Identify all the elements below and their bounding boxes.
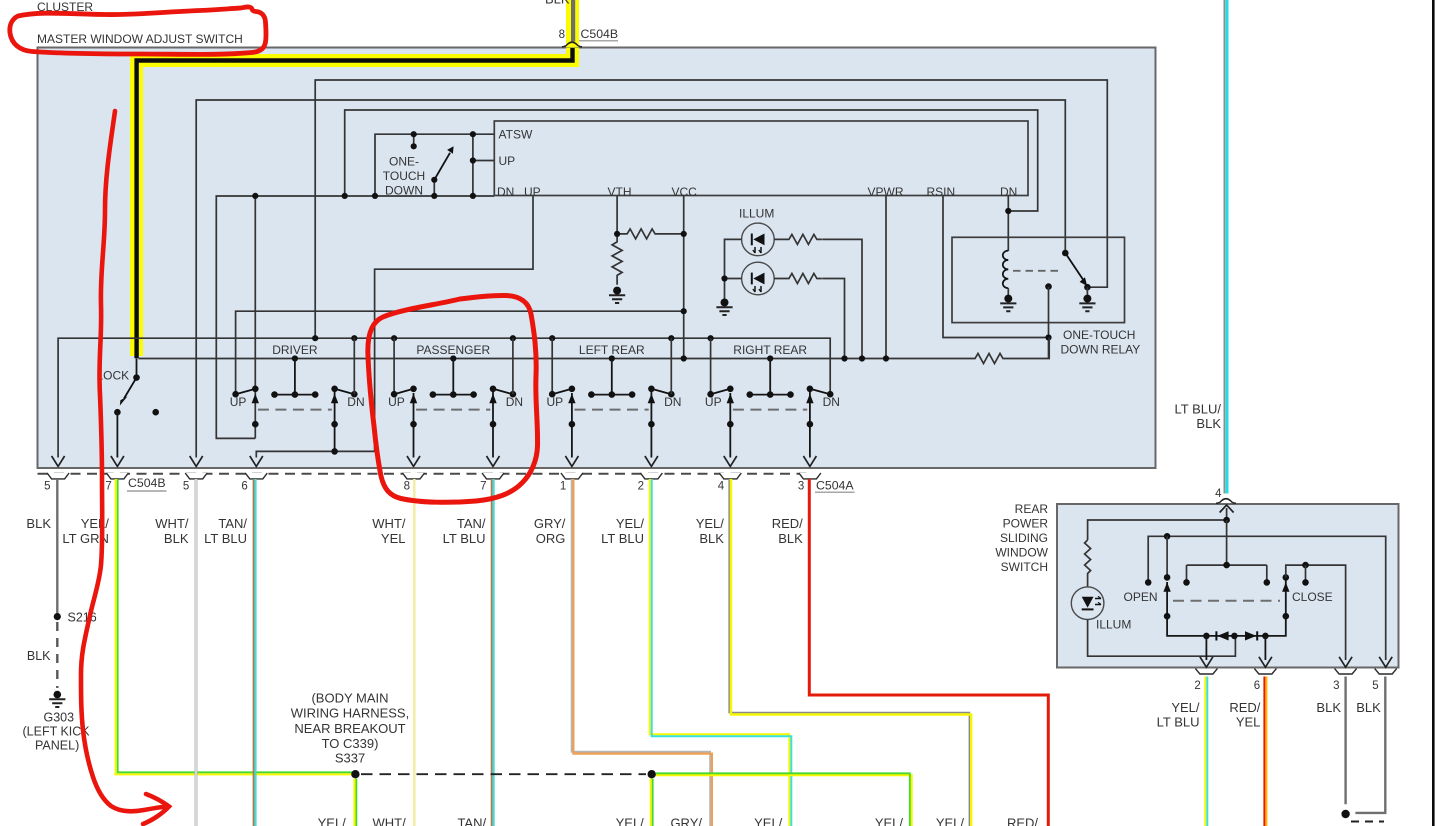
svg-text:TO C339): TO C339) (322, 736, 379, 751)
svg-text:LEFT REAR: LEFT REAR (579, 343, 645, 357)
label BLK (below S216) (27, 649, 51, 663)
svg-text:BLK: BLK (699, 531, 724, 546)
svg-text:LT BLU: LT BLU (443, 531, 486, 546)
svg-text:POWER: POWER (1003, 517, 1049, 531)
svg-text:6: 6 (1254, 680, 1260, 692)
label one-touch down relay (1061, 328, 1141, 357)
svg-text:PASSENGER: PASSENGER (416, 343, 490, 357)
one-touch down label (383, 155, 425, 198)
svg-text:REAR: REAR (1015, 502, 1049, 516)
svg-text:DRIVER: DRIVER (272, 343, 318, 357)
rear pin numbers (1194, 680, 1378, 692)
rear center bar (1183, 520, 1270, 586)
wire module DN line (y=196) (216, 196, 494, 438)
master window adjust switch label (37, 32, 243, 46)
connector rear switch pin 4 (1215, 488, 1236, 503)
connector pin numbers (44, 481, 804, 493)
master window adjust switch box (38, 48, 1156, 469)
relay switch (1062, 250, 1091, 296)
svg-text:YEL/: YEL/ (616, 516, 645, 531)
rear power sliding window switch box (1057, 504, 1399, 668)
svg-text:YEL: YEL (1236, 715, 1261, 730)
wire LED left leg (721, 239, 741, 301)
LED rear illum (1071, 587, 1104, 620)
svg-text:ORG: ORG (536, 531, 566, 546)
wire LT BLU/BLK (1224, 0, 1227, 494)
module pin labels (497, 128, 1017, 200)
svg-text:3: 3 (798, 481, 804, 493)
wire module UP pin run (256, 196, 533, 458)
svg-text:6: 6 (241, 481, 247, 493)
wire DN pin to relay coil (1005, 196, 1011, 252)
svg-text:DN: DN (506, 395, 523, 409)
svg-text:RED/: RED/ (772, 516, 803, 531)
LED lamp 1 (742, 223, 775, 256)
node S216 (68, 611, 97, 625)
svg-text:RED/: RED/ (1229, 700, 1260, 715)
svg-text:4: 4 (718, 481, 725, 493)
svg-text:5: 5 (44, 481, 50, 493)
passenger window switch (388, 338, 523, 457)
wire YEL/LT GRN below S337 right (651, 779, 653, 826)
svg-text:DN: DN (347, 395, 364, 409)
resistor VTH to ground (612, 234, 622, 285)
ground relay coil (1000, 295, 1016, 312)
red annotation long stroke down left side (81, 111, 169, 824)
svg-text:ILLUM: ILLUM (1096, 618, 1131, 632)
svg-text:2: 2 (1194, 680, 1200, 692)
splice S337 (351, 770, 656, 778)
svg-text:BLK: BLK (1316, 700, 1341, 715)
rear diode bar dots (1203, 633, 1269, 640)
svg-text:UP: UP (388, 395, 405, 409)
ground ILLUM (716, 299, 732, 316)
wire RED/YEL rear pin6 (1264, 677, 1266, 826)
page border line (1432, 0, 1435, 826)
svg-text:WHT/: WHT/ (372, 816, 406, 826)
wire BLK rear pin3 (1341, 677, 1384, 822)
svg-text:C504A: C504A (816, 479, 854, 493)
relay coil (1003, 251, 1009, 296)
wire YEL/LT GRN below S337 left (355, 779, 357, 826)
svg-text:RSIN: RSIN (927, 185, 956, 199)
svg-text:YEL/: YEL/ (936, 816, 965, 826)
svg-text:G303: G303 (44, 711, 75, 725)
power rail junction dots (292, 231, 889, 362)
svg-text:8: 8 (559, 29, 565, 41)
svg-text:YEL/: YEL/ (875, 816, 904, 826)
label S337 (body main wiring harness) (291, 691, 409, 766)
svg-text:UP: UP (705, 395, 722, 409)
label ILLUM rear (1096, 618, 1131, 632)
svg-text:VCC: VCC (672, 185, 698, 199)
bottom edge wire labels (cut) (318, 816, 1039, 826)
wire WHT/BLK pin5 (195, 479, 198, 826)
left rear window switch (547, 338, 682, 457)
svg-text:TAN/: TAN/ (457, 816, 486, 826)
svg-text:GRY/: GRY/ (670, 816, 702, 826)
svg-text:YEL/: YEL/ (318, 816, 347, 826)
resistor VTH-VCC (617, 196, 684, 239)
wire BLK pin5 to S216 (54, 479, 61, 688)
svg-text:SLIDING: SLIDING (1000, 531, 1048, 545)
op-amp module ATSW (window logic IC) (494, 121, 1028, 196)
svg-text:ONE-: ONE- (389, 155, 419, 169)
relay mechanical link dashed (1013, 270, 1063, 272)
svg-text:LT BLU: LT BLU (601, 531, 644, 546)
wire YEL/LT BLU pin2 (650, 479, 792, 826)
svg-text:1: 1 (560, 481, 566, 493)
svg-text:S337: S337 (335, 751, 365, 766)
svg-text:TOUCH: TOUCH (383, 169, 425, 183)
svg-text:7: 7 (105, 481, 111, 493)
svg-text:ONE-TOUCH: ONE-TOUCH (1063, 328, 1135, 342)
svg-text:UP: UP (230, 395, 247, 409)
wire YEL/BLK from cluster (above box) (566, 0, 579, 48)
power rail with resistor (y=358.5) (139, 338, 1050, 364)
rear line 2 (open contact rail to pin 5) (1145, 533, 1386, 660)
wire one-touch to DN pin (y=110) (345, 110, 1038, 211)
label rear power sliding window switch (995, 502, 1048, 574)
wire YEL/LT BLU rear pin2 (1205, 677, 1207, 826)
label LT BLU/BLK (1175, 402, 1222, 432)
svg-text:(LEFT KICK: (LEFT KICK (23, 725, 91, 739)
window rail junction dots (312, 335, 714, 341)
wire rail to relay (y=80) (315, 80, 1107, 338)
svg-text:3: 3 (1333, 680, 1339, 692)
right rear window switch (705, 338, 840, 457)
svg-text:5: 5 (183, 481, 189, 493)
lock switch (97, 359, 160, 458)
ground G303 (49, 691, 65, 707)
svg-text:PANEL): PANEL) (35, 739, 79, 753)
wire pin5 WHT/BLK to relay contact (y=100) (196, 100, 1065, 458)
diode D1 (left pointing) (1216, 631, 1228, 640)
rear pin 6 wire vertical (1264, 636, 1266, 660)
wire RSIN to relay (943, 196, 1049, 338)
diode D2 (right pointing) (1245, 631, 1257, 640)
svg-text:BLK: BLK (27, 649, 51, 663)
svg-text:DOWN RELAY: DOWN RELAY (1061, 343, 1141, 357)
rear pin 2 wire vertical (1205, 636, 1207, 660)
svg-text:BLK: BLK (26, 516, 51, 531)
wire yellow power feed inside box (137, 48, 573, 358)
svg-text:YEL: YEL (381, 531, 406, 546)
svg-text:NEAR BREAKOUT: NEAR BREAKOUT (294, 721, 405, 736)
label OPEN (1124, 590, 1158, 604)
wire driver up contact to VCC (y=311) (236, 311, 684, 396)
label G303 (left kick panel) (23, 711, 91, 753)
wire YEL/LT GRN from S337 right (656, 773, 912, 826)
ground VTH (609, 287, 625, 303)
rear switch feed line (1088, 517, 1230, 540)
svg-text:ATSW: ATSW (499, 128, 533, 142)
svg-text:C504B: C504B (581, 27, 619, 41)
label BLK (cut at top) (545, 0, 570, 7)
svg-text:SWITCH: SWITCH (1001, 560, 1048, 574)
rear box bottom bumps (1195, 669, 1396, 674)
svg-text:8: 8 (404, 481, 410, 493)
connector C504A label (815, 479, 855, 493)
svg-text:OPEN: OPEN (1124, 590, 1158, 604)
svg-text:(BODY MAIN: (BODY MAIN (311, 691, 388, 706)
svg-text:DN: DN (497, 185, 514, 199)
svg-text:WIRING HARNESS,: WIRING HARNESS, (291, 706, 409, 721)
svg-text:YEL/: YEL/ (81, 516, 110, 531)
svg-text:7: 7 (480, 481, 486, 493)
resistor rear illum (1085, 540, 1091, 587)
svg-text:MASTER WINDOW ADJUST SWITCH: MASTER WINDOW ADJUST SWITCH (37, 32, 243, 46)
driver window switch (230, 338, 365, 455)
ground relay switch (1079, 295, 1095, 312)
label CLOSE (1292, 590, 1333, 604)
svg-text:BLK: BLK (778, 531, 803, 546)
svg-text:DN: DN (823, 395, 840, 409)
svg-text:YEL/: YEL/ (696, 516, 725, 531)
svg-text:C504B: C504B (128, 476, 166, 490)
svg-text:GRY/: GRY/ (534, 516, 566, 531)
relay box one-touch down relay (952, 237, 1125, 322)
svg-text:TAN/: TAN/ (457, 516, 486, 531)
wire TAN/LT BLU pin7 (492, 479, 494, 826)
wire WHT/YEL pin8 (413, 479, 416, 826)
rear wire labels (1157, 700, 1381, 730)
cluster label (37, 0, 93, 14)
svg-text:CLOSE: CLOSE (1292, 590, 1333, 604)
connector bumps (47, 473, 821, 479)
red annotation loop around passenger switch (368, 295, 538, 502)
svg-text:RIGHT REAR: RIGHT REAR (733, 343, 807, 357)
svg-text:YEL/: YEL/ (754, 816, 783, 826)
wire GRY/ORG pin1 (572, 479, 712, 826)
wire driver up pivot loop (254, 196, 256, 438)
svg-text:LT BLU/: LT BLU/ (1175, 402, 1222, 417)
label BLK (pin5) (26, 516, 51, 531)
svg-text:UP: UP (547, 395, 564, 409)
LED lamp 2 (742, 262, 775, 295)
wire YEL/BLK pin4 (729, 479, 971, 826)
wire labels row below C504B (62, 516, 803, 546)
svg-text:UP: UP (524, 185, 541, 199)
wire RED/BLK pin3 (809, 479, 1048, 826)
svg-text:RED/: RED/ (1007, 816, 1038, 826)
wire YEL/LT GRN pin7 to S337 (116, 479, 356, 774)
relay center pin to resistor (1045, 283, 1052, 358)
svg-text:2: 2 (638, 481, 644, 493)
svg-text:LT BLU: LT BLU (1157, 715, 1200, 730)
svg-text:DOWN: DOWN (385, 184, 423, 198)
label ILLUM (739, 207, 774, 221)
box bottom output arrows (52, 456, 817, 466)
svg-text:ILLUM: ILLUM (739, 207, 774, 221)
svg-text:BLK: BLK (1196, 416, 1221, 431)
svg-text:VTH: VTH (608, 185, 632, 199)
resistor LED2 (774, 274, 844, 359)
svg-text:BLK: BLK (1356, 700, 1381, 715)
resistor LED1 (774, 234, 862, 358)
svg-text:4: 4 (1215, 488, 1222, 500)
red annotation ellipse around master window adjust switch (10, 7, 266, 54)
wire VPWR vertical (885, 196, 887, 359)
svg-text:LT BLU: LT BLU (204, 531, 247, 546)
rear switch input arrow (1220, 505, 1234, 520)
svg-text:BLK: BLK (164, 531, 189, 546)
wire TAN/LT BLU pin6 (254, 479, 256, 826)
svg-text:WHT/: WHT/ (155, 516, 189, 531)
svg-text:YEL/: YEL/ (616, 816, 645, 826)
svg-text:DN: DN (664, 395, 681, 409)
rear box bottom arrows (1200, 657, 1392, 667)
one-touch down switch (252, 131, 494, 199)
svg-text:BLK: BLK (545, 0, 570, 7)
svg-text:YEL/: YEL/ (1171, 700, 1200, 715)
rear close switch chain (1282, 562, 1346, 660)
svg-text:WINDOW: WINDOW (995, 546, 1048, 560)
rear mechanical link dashed (1173, 600, 1280, 602)
wire VCC vertical (683, 196, 685, 359)
svg-text:TAN/: TAN/ (218, 516, 247, 531)
window rail (y=338.2) (58, 338, 830, 457)
connector C504B label (127, 476, 167, 491)
connector C504B/C504A dashed line (38, 473, 814, 475)
wire BLK rear pin5 (1355, 677, 1385, 813)
wire rear illum return (1088, 620, 1236, 657)
svg-text:UP: UP (499, 154, 516, 168)
connector C504B pin 8 (559, 27, 619, 47)
svg-text:WHT/: WHT/ (372, 516, 406, 531)
svg-text:5: 5 (1372, 680, 1378, 692)
rear open switch chain (1163, 536, 1285, 636)
